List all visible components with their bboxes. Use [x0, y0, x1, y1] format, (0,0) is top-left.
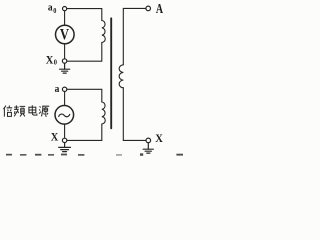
voltmeter V: [56, 25, 75, 44]
电: [29, 107, 36, 113]
AC source: [55, 106, 74, 125]
svg-text:X: X: [51, 131, 59, 144]
wire a to source: [64, 92, 66, 106]
wire a to winding W3 top: [67, 89, 102, 102]
winding W3 (source winding): [102, 102, 105, 124]
core: [110, 18, 112, 128]
label X (left): [51, 131, 59, 144]
wire voltmeter to X0: [64, 44, 66, 59]
wire W3 bottom to X (left): [67, 124, 102, 140]
svg-text:a: a: [48, 2, 53, 13]
频: [14, 105, 19, 116]
terminal X (right): [146, 138, 151, 143]
svg-text:A: A: [156, 2, 164, 17]
label X0: [46, 54, 58, 67]
ground at X (right): [143, 143, 153, 153]
tilde: [59, 114, 70, 117]
label A: [156, 2, 164, 17]
wire A to winding W2 top: [123, 8, 146, 64]
ground at X (left): [59, 143, 71, 152]
label a0: [48, 2, 57, 15]
ground at X0: [60, 63, 70, 73]
wire source to X (left): [64, 124, 66, 138]
winding W2 (HV winding): [119, 65, 123, 88]
terminal a0: [63, 7, 67, 11]
源: [39, 106, 41, 113]
terminal X (left): [62, 138, 66, 142]
label a (source): [55, 83, 60, 94]
label X (right): [155, 133, 163, 146]
terminal a: [62, 87, 66, 91]
svg-text:0: 0: [54, 59, 58, 66]
svg-text:a: a: [55, 83, 60, 94]
svg-text:X: X: [155, 133, 163, 146]
wire W2 bottom to X: [123, 88, 146, 141]
wire a0 to voltmeter: [64, 11, 66, 25]
winding W1 (measuring winding): [102, 21, 105, 43]
svg-text:V: V: [60, 26, 70, 44]
svg-text:X: X: [46, 54, 54, 67]
terminal X0: [62, 59, 66, 63]
label 倍频电源 (drawn strokes): [3, 105, 49, 116]
cut-off caption fragments at bottom edge: [6, 153, 183, 156]
倍: [3, 106, 6, 117]
terminal A: [146, 6, 151, 11]
wire W1 bottom to X0: [67, 43, 102, 62]
wire a0 to winding W1 top: [67, 9, 102, 21]
